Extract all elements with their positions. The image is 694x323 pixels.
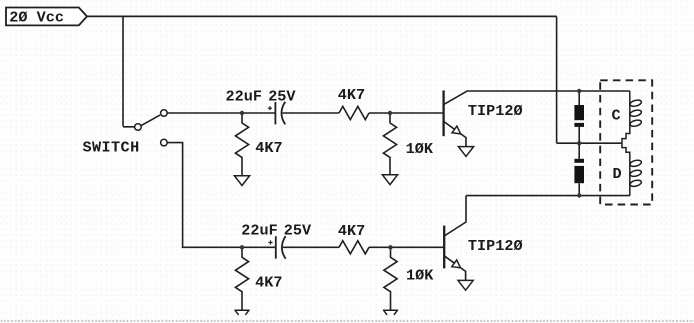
- svg-text:1ØK: 1ØK: [406, 267, 434, 285]
- svg-text:TIP12Ø: TIP12Ø: [468, 237, 523, 255]
- svg-text:4K7: 4K7: [338, 222, 365, 240]
- svg-text:SWITCH: SWITCH: [83, 139, 140, 157]
- svg-text:TIP12Ø: TIP12Ø: [468, 102, 523, 120]
- svg-text:2Ø Vcc: 2Ø Vcc: [9, 9, 64, 27]
- svg-text:C: C: [612, 107, 621, 125]
- svg-text:4K7: 4K7: [338, 86, 365, 104]
- svg-text:22uF: 22uF: [226, 87, 262, 105]
- svg-text:4K7: 4K7: [255, 139, 282, 157]
- svg-text:25V: 25V: [268, 87, 296, 105]
- svg-text:22uF: 22uF: [241, 222, 277, 240]
- svg-text:4K7: 4K7: [255, 274, 282, 292]
- svg-text:25V: 25V: [284, 222, 312, 240]
- svg-text:1ØK: 1ØK: [406, 140, 434, 158]
- svg-text:D: D: [613, 165, 622, 183]
